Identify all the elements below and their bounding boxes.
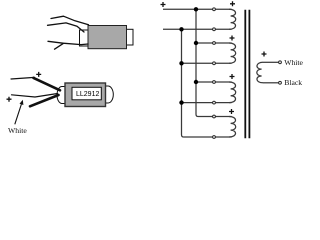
svg-text:White: White — [284, 58, 303, 67]
svg-text:White: White — [8, 126, 27, 135]
svg-text:Black: Black — [284, 78, 302, 87]
svg-text:LL2912: LL2912 — [76, 91, 99, 98]
